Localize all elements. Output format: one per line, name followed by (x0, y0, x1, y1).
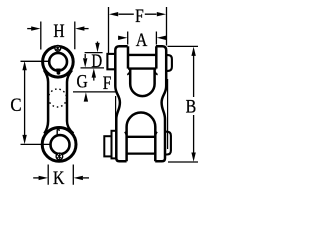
right view: top jaw window with rounded bottom (130, 69, 154, 97)
dimension C line with arrows (22, 61, 26, 144)
dimension H arrows (27, 26, 88, 30)
left view: bottom eye hole (51, 135, 70, 154)
left view: shank left edge with fillets (44, 70, 48, 134)
dimension G lower extension line (shared leader to right view) (73, 91, 117, 93)
dimension D arrows (92, 42, 100, 81)
dimension K extension lines (48, 165, 73, 185)
right view: right ear and body outline (155, 46, 166, 161)
right view: bottom pin shaft (127, 137, 156, 154)
right view: bottom pin left collar (112, 131, 117, 159)
dimension A extension lines (128, 32, 157, 45)
left view: shank right edge with fillets (67, 70, 73, 133)
dimension F extension lines (109, 7, 167, 54)
svg-text:B: B (186, 97, 197, 117)
dimension C extension lines (21, 61, 51, 144)
left view: bottom eye outer circle (42, 127, 76, 161)
svg-text:D: D (91, 52, 102, 72)
right view: right silhouette line (167, 79, 169, 149)
right view: top pin right tab (166, 55, 172, 71)
dimension G lower arrow (84, 92, 88, 101)
dimension H extension lines (41, 22, 75, 50)
right view: top pin shaft (128, 55, 156, 69)
left view: hook detail above bottom hole (57, 129, 59, 135)
right view: bottom window arch and leg inner edges (127, 113, 156, 162)
svg-text:H: H (53, 22, 64, 42)
dimension F line with arrows (109, 12, 166, 16)
dimension K arrows (33, 176, 89, 180)
svg-text:C: C (10, 96, 21, 116)
svg-text:F: F (135, 7, 144, 27)
svg-text:K: K (53, 169, 65, 189)
right view: right ear inner edge (155, 46, 158, 68)
left view: cotter detail top of hole (55, 45, 61, 51)
dimension G upper arrow (83, 54, 87, 68)
dimension B extension lines (168, 46, 199, 162)
right view: left silhouette line (115, 96, 117, 130)
right view: left ear inner edge (127, 46, 130, 68)
left view: top eye hole (49, 53, 67, 71)
right view: left ear and body outline (107, 46, 171, 161)
right view: bottom pin corner fillets (125, 132, 158, 137)
right view: bottom pin right tab (165, 132, 171, 155)
svg-text:F: F (103, 74, 112, 94)
dimension D lower extension line (81, 67, 105, 69)
right view: bottom pin left head (104, 136, 111, 156)
left view: cotter detail bottom of hole (56, 153, 63, 160)
dimension A arrows (118, 36, 166, 40)
left view: tab below top hole (56, 69, 60, 75)
dimension B line with arrows (191, 47, 195, 162)
svg-text:A: A (136, 31, 148, 51)
svg-text:G: G (77, 73, 88, 93)
right view: top pin corner fillets (127, 70, 157, 74)
right view: top pin left head (107, 54, 115, 69)
left view: top eye outer circle (43, 47, 74, 78)
dimension D upper extension line (85, 52, 103, 54)
left view: hidden dashed circle on shank (49, 89, 67, 107)
